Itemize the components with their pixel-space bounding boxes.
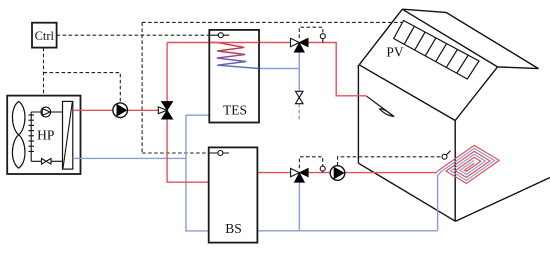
house sensor (446, 151, 450, 155)
house outline (358, 9, 550, 221)
wire V2 bottom branch (298, 50, 300, 91)
floor heating loop red (437, 145, 499, 183)
wire floor heating riser (438, 171, 442, 230)
wire red line across TES top (210, 42, 259, 44)
fan blades (12, 102, 25, 169)
pump P1 (113, 103, 128, 118)
wire HP return (73, 157, 186, 159)
TES coil (210, 43, 259, 69)
wire bus to BS sensor (142, 152, 209, 154)
svg-text:TES: TES (223, 103, 247, 118)
svg-text:PV: PV (386, 45, 404, 60)
svg-text:HP: HP (37, 128, 54, 143)
sensor stem V2 (322, 39, 324, 43)
wire TES coil out to valve branch (259, 68, 299, 70)
blue return pipes (73, 50, 442, 231)
Ctrl box (32, 23, 57, 48)
wire V1 riser up (166, 43, 168, 102)
wire vertical bus (141, 22, 143, 153)
valve V3 (3-way near BS) (291, 168, 300, 176)
sensor stem V3 (322, 171, 324, 173)
expansion valve (HP internal) (42, 159, 47, 165)
air outlet arrow (bird) (367, 96, 395, 116)
wire V2 to house air unit (308, 43, 367, 96)
wire branch to pump P1 (44, 73, 121, 103)
wire valve V3 sensor loop (299, 157, 322, 168)
HP internal circuit (28, 112, 62, 161)
wire BS to floor heating return (257, 230, 437, 232)
dashed control lines (44, 22, 442, 168)
sensor near V2 (320, 34, 325, 39)
wire supply to TES and V2 (167, 42, 290, 44)
valve V1 (3-way) (162, 102, 173, 111)
wire top bus to PV (142, 21, 403, 23)
pump P2 (330, 166, 345, 181)
sensor TES (218, 33, 223, 38)
PV panel (394, 21, 479, 80)
floor heating loop blue (441, 148, 494, 180)
red supply pipes (73, 43, 437, 183)
svg-text:Ctrl: Ctrl (35, 29, 55, 43)
wire blue stub from condenser (73, 157, 82, 159)
HP unit box (7, 96, 80, 174)
wire red stub from condenser (73, 109, 82, 111)
wire pump P2 to house sensor (338, 157, 442, 166)
wire V3 bottom branch (298, 182, 300, 231)
wire V3 through P2 to floor heating (308, 172, 437, 174)
wire Ctrl to TES sensor (57, 34, 211, 36)
condenser heat exchanger (63, 101, 73, 169)
svg-text:BS: BS (225, 221, 242, 236)
TES sensor stem (210, 34, 229, 36)
BS tank (209, 147, 258, 242)
BS sensor stem (209, 152, 229, 154)
wire Ctrl to HP (43, 48, 45, 96)
sensor BS (218, 151, 223, 156)
wire HP supply to valve V1 (73, 109, 159, 111)
valve V2 (3-way near TES) (291, 38, 300, 46)
sensor near V3 (320, 166, 325, 171)
2-way valve below V2 (296, 91, 304, 97)
wire V1 down to BS (167, 119, 209, 182)
wire TES bottom port to BS via HP junction (186, 115, 209, 231)
wire valve V2 sensor loop (299, 27, 323, 38)
wire BS to valve V3 (257, 172, 290, 174)
pump P3 (HP internal) (41, 107, 51, 117)
TES tank (209, 30, 259, 123)
wire blue dashed stub below 2-way valve (298, 104, 300, 120)
